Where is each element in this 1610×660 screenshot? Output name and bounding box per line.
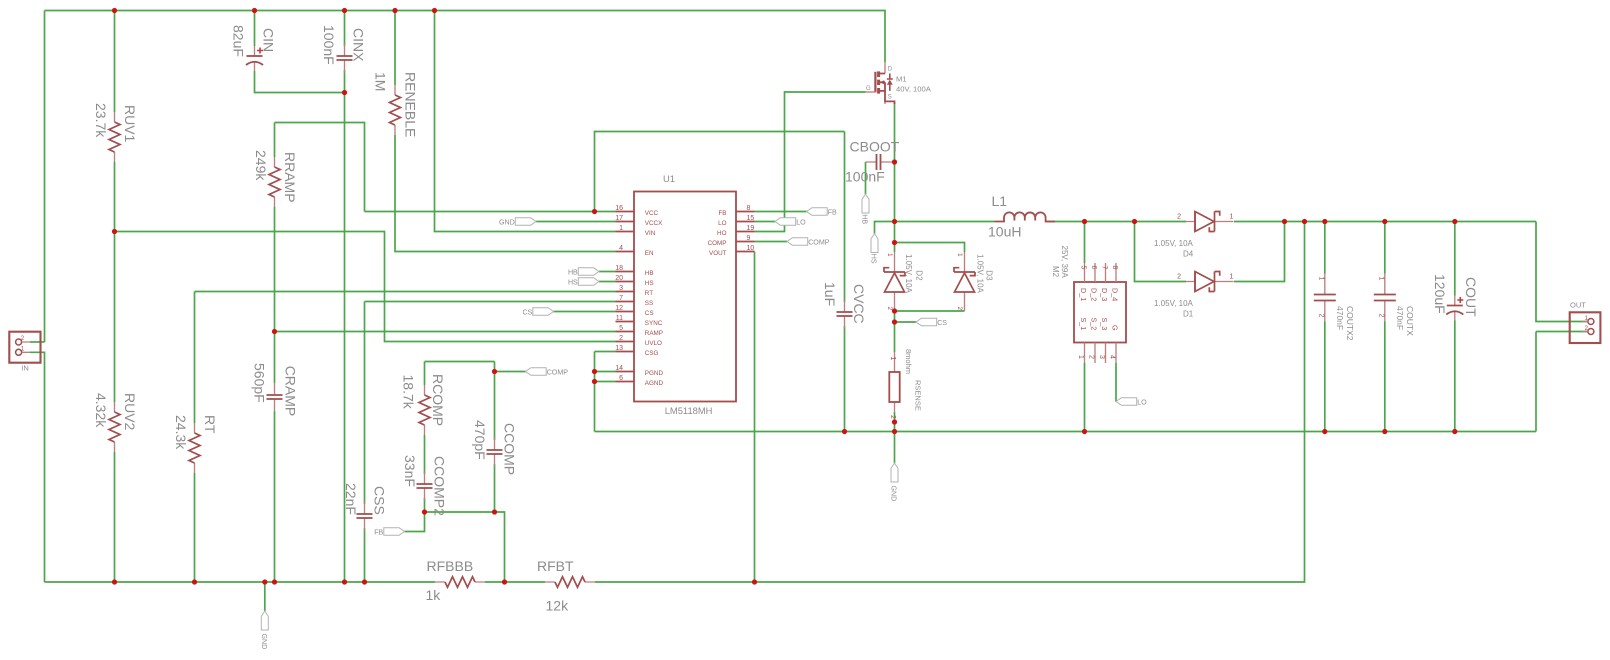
svg-text:6: 6 — [619, 375, 623, 382]
svg-text:4: 4 — [1109, 355, 1116, 359]
wire FB node — [485, 581, 545, 583]
svg-text:HB: HB — [645, 270, 654, 277]
wire SS to CSS — [364, 302, 366, 505]
junction — [752, 579, 757, 584]
svg-text:RAMP: RAMP — [645, 330, 663, 337]
wire left rail to IN pin 2 — [44, 11, 46, 343]
resistor RFBBB — [426, 558, 486, 603]
junction — [1082, 219, 1087, 224]
resistor RT — [173, 415, 218, 473]
junction — [112, 579, 117, 584]
wire RENEBLE to EN — [395, 135, 616, 252]
wire M2 pin5 to switch rail — [1084, 222, 1086, 264]
svg-text:100nF: 100nF — [845, 169, 885, 185]
net label HB at CBOOT — [861, 194, 869, 224]
wire VOUT pin to sense rail — [754, 252, 756, 583]
svg-text:RT: RT — [202, 415, 218, 434]
inductor L1 — [988, 193, 1055, 240]
junction — [342, 8, 347, 13]
svg-text:SYNC: SYNC — [645, 320, 663, 327]
svg-text:RUV1: RUV1 — [122, 105, 138, 143]
wire out to COUT — [1454, 222, 1456, 296]
svg-text:CBOOT: CBOOT — [850, 139, 900, 155]
svg-text:2: 2 — [1177, 214, 1181, 221]
wire CS node to RSENSE — [894, 311, 896, 352]
resistor RRAMP — [253, 150, 298, 207]
svg-text:VCCX: VCCX — [645, 220, 663, 227]
junction — [1452, 429, 1457, 434]
wire CBOOT to HB flag — [865, 162, 867, 194]
svg-text:U1: U1 — [663, 173, 675, 184]
resistor RUV2 — [93, 393, 138, 452]
wire M2 pin4 to LO flag — [1115, 363, 1117, 402]
transistor M1 — [866, 62, 932, 104]
wire RCOMP top to CCOMP — [425, 361, 495, 363]
wire SS net — [365, 301, 616, 303]
svg-text:FB: FB — [374, 529, 383, 537]
svg-text:CVCC: CVCC — [851, 284, 867, 324]
svg-text:VIN: VIN — [645, 230, 656, 237]
wire RT vertical — [194, 292, 196, 424]
diode D4 — [1154, 212, 1234, 259]
wire HS pin — [599, 281, 616, 283]
junction — [592, 369, 597, 374]
wire RT pin to resistor — [195, 291, 616, 293]
svg-text:3: 3 — [1098, 355, 1105, 359]
junction — [362, 579, 367, 584]
svg-text:6: 6 — [1090, 266, 1097, 270]
junction — [892, 219, 897, 224]
wire GND flag stub rsense — [894, 432, 896, 464]
svg-text:5: 5 — [619, 325, 623, 332]
svg-text:M2: M2 — [1051, 266, 1060, 278]
svg-text:CCOMP2: CCOMP2 — [432, 456, 448, 516]
svg-text:HB: HB — [861, 214, 869, 224]
net label HS at U1 — [568, 278, 599, 287]
wire RSENSE to PGND — [894, 412, 896, 432]
wire CCOMP2 bottom — [424, 498, 426, 512]
junction — [262, 579, 267, 584]
wire LO pin — [755, 221, 776, 223]
svg-text:HB: HB — [568, 269, 578, 277]
junction — [842, 429, 847, 434]
wire top rail to CIN — [254, 11, 256, 47]
svg-text:CIN: CIN — [261, 28, 277, 52]
net label GND at VCCX — [499, 218, 536, 227]
capacitor COUTX2 — [1314, 274, 1355, 341]
svg-text:COMP: COMP — [708, 240, 727, 247]
svg-text:LO: LO — [718, 220, 727, 227]
junction — [422, 509, 427, 514]
junction — [892, 308, 897, 313]
svg-text:1: 1 — [889, 357, 896, 361]
svg-text:82uF: 82uF — [231, 25, 247, 57]
diode D1 — [1154, 272, 1234, 319]
svg-text:GND: GND — [260, 634, 268, 650]
wire comp ground link — [425, 512, 505, 582]
wire GND bottom rail — [45, 581, 436, 583]
svg-text:COMP: COMP — [547, 369, 569, 377]
wire top rail to RUV1 — [114, 11, 116, 113]
svg-text:1M: 1M — [373, 72, 389, 91]
diode D3 — [954, 252, 994, 311]
svg-text:RFBT: RFBT — [537, 558, 574, 574]
wire RRAMP top lead — [274, 123, 276, 158]
svg-text:G: G — [866, 86, 871, 92]
svg-text:COUTX: COUTX — [1405, 306, 1415, 336]
junction — [1382, 429, 1387, 434]
svg-text:33nF: 33nF — [402, 455, 418, 487]
capacitor CINX — [321, 25, 367, 73]
svg-text:D_4: D_4 — [1111, 288, 1120, 301]
junction — [1452, 219, 1457, 224]
svg-text:D1: D1 — [1183, 310, 1194, 319]
svg-text:470nF: 470nF — [1335, 306, 1345, 330]
junction — [592, 379, 597, 384]
svg-text:4: 4 — [619, 245, 623, 252]
svg-text:17: 17 — [615, 215, 623, 222]
svg-text:12k: 12k — [546, 598, 570, 614]
wire M1 source to CBOOT and D2 — [894, 103, 896, 252]
wire CVCC bottom — [844, 326, 846, 432]
svg-text:560pF: 560pF — [251, 363, 267, 403]
svg-text:22nF: 22nF — [343, 483, 359, 515]
svg-text:20: 20 — [615, 275, 623, 282]
junction — [892, 319, 897, 324]
svg-text:470pF: 470pF — [472, 420, 488, 460]
svg-text:COUTX2: COUTX2 — [1345, 306, 1355, 341]
svg-text:CS: CS — [937, 319, 947, 327]
wire HO to M1 gate — [755, 92, 866, 232]
wire VCCX to GND flag — [536, 221, 616, 223]
wire RUV1 to RUV2 — [114, 162, 116, 402]
svg-text:2: 2 — [886, 307, 893, 311]
svg-text:2: 2 — [1177, 274, 1181, 281]
svg-text:RSENSE: RSENSE — [914, 380, 923, 411]
svg-text:24.3k: 24.3k — [173, 415, 189, 450]
module M2 — [1051, 246, 1126, 364]
svg-text:LO: LO — [796, 219, 806, 227]
svg-text:D3: D3 — [985, 270, 994, 281]
ground GND flag at RSENSE — [890, 463, 898, 501]
wire OUT pin2 — [1536, 331, 1588, 333]
svg-text:100nF: 100nF — [321, 25, 337, 65]
wire FB flag stub — [405, 512, 425, 532]
wire D4 cathode to output node — [1234, 221, 1536, 223]
svg-text:2: 2 — [1317, 314, 1324, 318]
capacitor CIN — [231, 25, 277, 71]
svg-text:COUT: COUT — [1463, 277, 1479, 317]
svg-text:HS: HS — [870, 254, 878, 264]
svg-text:CS: CS — [645, 310, 654, 317]
svg-text:19: 19 — [747, 225, 755, 232]
capacitor CVCC — [822, 282, 867, 329]
svg-text:M1: M1 — [896, 75, 907, 84]
junction — [892, 240, 897, 245]
wire COUT to PGND — [1454, 321, 1456, 432]
svg-text:10: 10 — [747, 245, 755, 252]
wire switch node to L1 — [895, 221, 995, 223]
svg-text:CS: CS — [522, 309, 532, 317]
svg-text:1uF: 1uF — [822, 282, 838, 306]
svg-text:S_3: S_3 — [1100, 318, 1109, 331]
svg-text:COMP: COMP — [808, 239, 830, 247]
junction — [392, 8, 397, 13]
junction — [1132, 219, 1137, 224]
wire out to COUTX — [1384, 222, 1386, 274]
svg-text:FB: FB — [828, 209, 837, 217]
svg-text:8: 8 — [747, 205, 751, 212]
svg-text:D2: D2 — [915, 270, 924, 281]
svg-text:120uF: 120uF — [1432, 274, 1448, 314]
wire top rail to RENEBLE — [394, 11, 396, 86]
wire COUTX2 to PGND — [1324, 322, 1326, 432]
wire out to COUTX2 — [1324, 222, 1326, 274]
svg-text:1.05V, 10A: 1.05V, 10A — [976, 254, 985, 294]
svg-text:16: 16 — [615, 205, 623, 212]
svg-text:RUV2: RUV2 — [122, 393, 138, 431]
svg-text:1: 1 — [1377, 277, 1384, 281]
svg-text:1: 1 — [21, 346, 25, 352]
svg-text:470nF: 470nF — [1395, 306, 1405, 330]
net label FB at U1 — [807, 208, 838, 217]
svg-text:S_1: S_1 — [1079, 318, 1088, 331]
junction — [342, 90, 347, 95]
svg-text:GND: GND — [499, 219, 515, 227]
resistor RFBT — [537, 558, 595, 614]
svg-text:GND: GND — [890, 486, 898, 502]
svg-text:1.05V, 10A: 1.05V, 10A — [904, 254, 913, 294]
junction — [272, 579, 277, 584]
svg-text:SS: SS — [645, 300, 653, 307]
wire CRAMP to GND — [274, 411, 276, 582]
wire RT to GND — [194, 473, 196, 582]
svg-text:S: S — [888, 95, 892, 101]
junction — [1382, 219, 1387, 224]
net label HB at U1 — [568, 268, 599, 277]
wire CSG pin — [595, 351, 616, 353]
svg-text:CRAMP: CRAMP — [283, 366, 299, 417]
wire PGND rail — [595, 431, 1537, 433]
junction — [1322, 219, 1327, 224]
svg-text:HO: HO — [717, 230, 727, 237]
wire CVCC top — [844, 132, 846, 303]
wire RAMP net — [275, 331, 616, 333]
junction — [272, 329, 277, 334]
junction — [1282, 219, 1287, 224]
junction — [432, 8, 437, 13]
wire RRAMP to RAMP node / CRAMP — [274, 207, 276, 383]
svg-text:1.05V, 10A: 1.05V, 10A — [1154, 299, 1194, 308]
junction — [592, 209, 597, 214]
connector IN — [9, 332, 40, 373]
svg-text:1: 1 — [1230, 214, 1234, 221]
wire OUT pin2 to PGND — [1535, 332, 1537, 432]
svg-text:RCOMP: RCOMP — [430, 374, 446, 426]
svg-text:RFBBB: RFBBB — [427, 558, 474, 574]
svg-text:G: G — [1111, 325, 1120, 331]
ground GND flag bottom — [260, 611, 268, 649]
svg-text:RRAMP: RRAMP — [282, 152, 298, 203]
svg-text:LO: LO — [1137, 399, 1147, 407]
junction — [892, 419, 897, 424]
svg-text:D_3: D_3 — [1100, 288, 1109, 301]
svg-text:1: 1 — [956, 253, 963, 257]
svg-text:25V, 39A: 25V, 39A — [1060, 246, 1069, 279]
wire D2 to D3 bottom — [895, 310, 965, 312]
wire M2 pin1 to PGND — [1084, 363, 1086, 432]
svg-text:D_2: D_2 — [1090, 288, 1099, 301]
junction — [892, 159, 897, 164]
svg-text:AGND: AGND — [645, 380, 664, 387]
connector OUT — [1570, 301, 1601, 344]
wire to D1 anode — [1135, 222, 1187, 282]
svg-text:18.7k: 18.7k — [401, 375, 417, 410]
svg-text:249k: 249k — [253, 150, 269, 181]
wire PGND pin — [595, 371, 616, 373]
resistor RCOMP — [401, 374, 447, 435]
resistor RENEBLE — [373, 72, 419, 137]
wire CS pin — [554, 311, 616, 313]
wire CS flag stub — [895, 321, 917, 323]
svg-text:3: 3 — [619, 285, 623, 292]
svg-text:UVLO: UVLO — [645, 340, 662, 347]
net label CS at D2 — [916, 318, 947, 327]
wire AGND pin — [595, 381, 616, 383]
svg-text:HS: HS — [568, 279, 578, 287]
junction — [112, 8, 117, 13]
svg-text:D_1: D_1 — [1079, 288, 1088, 301]
wire RRAMP top to VCC — [275, 123, 365, 212]
svg-text:8: 8 — [1111, 266, 1118, 270]
svg-text:EN: EN — [645, 250, 654, 257]
svg-text:1: 1 — [886, 253, 893, 257]
junction — [1302, 219, 1307, 224]
svg-text:2: 2 — [1088, 355, 1095, 359]
op-amp U1 LM5118MH — [615, 173, 754, 416]
wire CIN to CINX bottom — [255, 71, 345, 93]
wire VIN+ top rail — [45, 11, 886, 63]
wire D2 to D3 top — [895, 243, 965, 253]
resistor RUV1 — [93, 103, 138, 162]
svg-text:7: 7 — [619, 295, 623, 302]
svg-text:2: 2 — [1377, 314, 1384, 318]
svg-text:40V, 100A: 40V, 100A — [896, 85, 932, 94]
svg-text:LM5118MH: LM5118MH — [665, 405, 713, 416]
svg-text:VCC: VCC — [645, 210, 659, 217]
junction — [192, 579, 197, 584]
svg-text:5: 5 — [1080, 266, 1087, 270]
junction — [112, 229, 117, 234]
wire CINX to GND rail — [344, 70, 346, 582]
wire CSS to GND — [364, 528, 366, 582]
svg-text:7: 7 — [1101, 266, 1108, 270]
junction — [342, 579, 347, 584]
capacitor CSS — [343, 483, 388, 531]
wire D1 cathode to output — [1234, 222, 1285, 282]
svg-text:PGND: PGND — [645, 370, 664, 377]
wire VOUT sense rail — [595, 222, 1305, 583]
net label COMP at CCOMP — [526, 368, 569, 377]
wire VCC net — [365, 211, 616, 213]
wire COUTX to PGND — [1384, 322, 1386, 432]
svg-text:12: 12 — [615, 305, 623, 312]
svg-text:RT: RT — [645, 290, 653, 297]
wire HB pin — [599, 271, 616, 273]
net label CS at U1 — [522, 308, 553, 317]
svg-text:D4: D4 — [1183, 250, 1194, 259]
diode D2 — [884, 252, 924, 311]
capacitor CCOMP2 — [402, 455, 448, 516]
svg-text:1k: 1k — [426, 587, 442, 603]
svg-text:18: 18 — [615, 265, 623, 272]
svg-text:10uH: 10uH — [988, 224, 1021, 240]
junction — [1082, 429, 1087, 434]
wire UVLO net — [115, 232, 616, 342]
wire IN pin2 to rail — [30, 341, 45, 343]
net label COMP at U1 — [787, 238, 830, 247]
svg-text:2: 2 — [21, 336, 25, 342]
wire out to OUT pin1 — [1536, 222, 1588, 322]
wire CCOMP top — [494, 362, 496, 441]
junction — [492, 509, 497, 514]
capacitor CBOOT — [845, 139, 900, 185]
svg-text:FB: FB — [718, 210, 726, 217]
wire top rail to CINX — [344, 11, 346, 47]
svg-text:11: 11 — [616, 315, 623, 322]
svg-text:1.05V, 10A: 1.05V, 10A — [1154, 239, 1194, 248]
wire ground column — [594, 352, 596, 432]
wire CCOMP bottom — [494, 464, 496, 512]
wire HS flag stub — [875, 222, 895, 234]
wire L1 to output node — [1046, 221, 1187, 223]
svg-text:1: 1 — [619, 225, 623, 232]
net label FB at divider — [374, 528, 404, 537]
net label LO at U1 — [775, 218, 806, 227]
svg-text:RENEBLE: RENEBLE — [403, 72, 419, 137]
wire VIN net — [435, 11, 616, 232]
junction — [1322, 429, 1327, 434]
svg-text:1: 1 — [1230, 274, 1234, 281]
junction — [502, 579, 507, 584]
wire VCC to CVCC — [595, 132, 845, 212]
junction — [492, 369, 497, 374]
wire IN pin1 to GND rail — [30, 352, 45, 582]
capacitor COUTX — [1374, 274, 1415, 337]
junction — [252, 8, 257, 13]
svg-text:L1: L1 — [992, 193, 1008, 209]
capacitor CCOMP — [472, 420, 518, 475]
svg-text:23.7k: 23.7k — [93, 103, 109, 138]
svg-text:IN: IN — [21, 364, 29, 373]
svg-text:CSG: CSG — [645, 350, 659, 357]
svg-text:4.32k: 4.32k — [93, 393, 109, 428]
svg-text:1: 1 — [1317, 277, 1324, 281]
capacitor CRAMP — [251, 363, 298, 416]
svg-text:S_2: S_2 — [1090, 318, 1099, 331]
svg-text:15: 15 — [747, 215, 755, 222]
svg-text:9: 9 — [747, 235, 751, 242]
capacitor COUT — [1432, 274, 1479, 321]
svg-text:13: 13 — [615, 345, 623, 352]
svg-text:2: 2 — [889, 415, 896, 419]
svg-text:8mohm: 8mohm — [904, 349, 913, 374]
svg-text:CCOMP: CCOMP — [502, 423, 518, 475]
resistor RSENSE — [889, 349, 923, 419]
wire FB pin — [755, 211, 807, 213]
wire RCOMP to CCOMP2 — [424, 435, 426, 474]
svg-text:OUT: OUT — [1570, 301, 1586, 310]
